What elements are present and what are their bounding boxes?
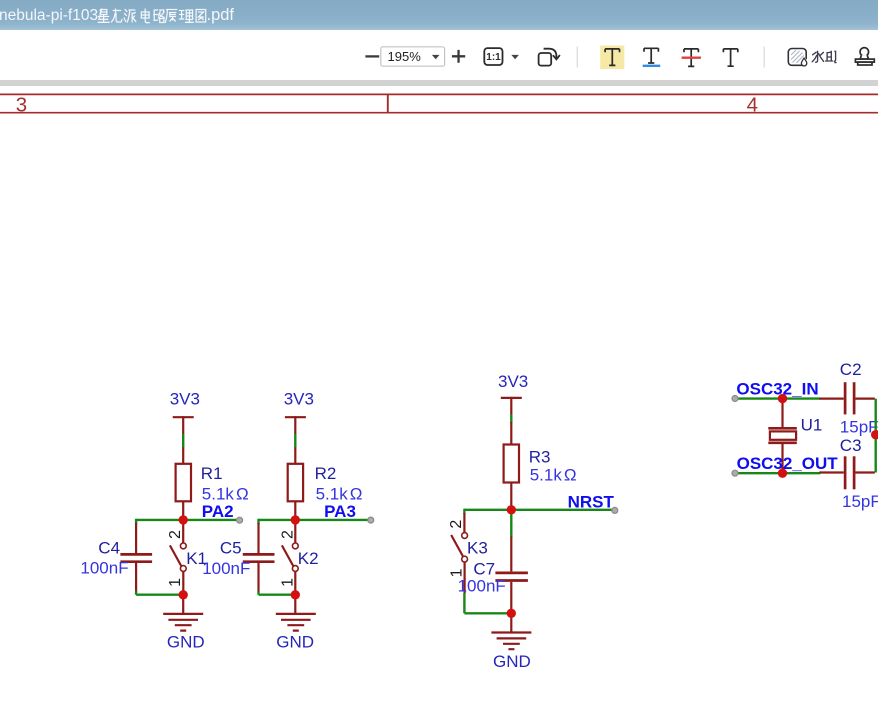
stamp icon [855, 48, 874, 65]
svg-text:GND: GND [276, 632, 314, 651]
wire C4 top corner [135, 519, 137, 524]
junction node K3/C7/GND [507, 609, 516, 618]
svg-text:3V3: 3V3 [284, 390, 314, 409]
svg-text:PA2: PA2 [202, 502, 234, 521]
char 星 [98, 10, 109, 23]
sheet border top line [0, 93, 878, 95]
wire junction to C7 [510, 510, 512, 538]
pin endpoint dot OSC32_OUT [732, 470, 738, 476]
junction node R3/K3/C7/NRST [507, 505, 516, 514]
ground symbol (K1 branch) [163, 595, 203, 631]
strike-T button [682, 49, 701, 67]
svg-text:100nF: 100nF [458, 576, 506, 595]
switch K2 [282, 520, 298, 595]
ground symbol (K2 branch) [276, 595, 316, 631]
zoom dropdown 195% [381, 47, 445, 66]
svg-text:5.1kΩ: 5.1kΩ [316, 484, 363, 503]
junction node K1/C4/GND [179, 590, 188, 599]
svg-text:C5: C5 [220, 538, 242, 557]
svg-text:1: 1 [279, 578, 296, 587]
junction node R2/K2/C5 [291, 515, 300, 524]
capacitor C7 [495, 537, 528, 614]
svg-text:3: 3 [16, 94, 27, 117]
pin endpoint dot NRST [612, 507, 618, 513]
PDF viewer title bar [0, 0, 878, 30]
crystal U1 [768, 399, 797, 474]
char 路 [154, 10, 165, 23]
capacitor C4 [120, 523, 152, 592]
rotate button [539, 49, 560, 66]
svg-text:2: 2 [167, 530, 184, 539]
pin from 3V3 bar [510, 397, 512, 415]
svg-text:5.1kΩ: 5.1kΩ [530, 466, 577, 485]
underline-T button [643, 48, 661, 66]
char 理 [179, 10, 193, 22]
wire node PA3 horizontal [259, 519, 369, 521]
pin endpoint dot PA2 [237, 517, 243, 523]
svg-text:GND: GND [167, 632, 205, 651]
grey separator strip [0, 80, 878, 86]
junction node R1/K1/C4 [179, 515, 188, 524]
svg-text:OSC32_OUT: OSC32_OUT [737, 454, 839, 473]
wire node PA2 horizontal [136, 519, 237, 521]
sheet border column tick [387, 94, 389, 112]
junction node OSC32_IN / U1 / C2 [778, 394, 787, 403]
power bar 3V3 (NRST branch) [501, 397, 522, 399]
svg-text:R1: R1 [201, 464, 223, 483]
toolbar [0, 30, 878, 80]
水印 label [812, 51, 836, 62]
svg-text:3V3: 3V3 [170, 390, 200, 409]
svg-text:2: 2 [448, 520, 465, 529]
resistor R2 [288, 448, 303, 520]
resistor R1 [176, 448, 191, 520]
separator [763, 47, 765, 68]
svg-text:K3: K3 [467, 539, 488, 558]
plain-T button [723, 49, 737, 66]
char 原 [165, 10, 177, 23]
svg-text:5.1kΩ: 5.1kΩ [202, 484, 249, 503]
svg-text:3V3: 3V3 [498, 372, 528, 391]
char 图 [196, 10, 206, 23]
junction node K2/C5/GND [291, 590, 300, 599]
junction node OSC32_OUT / U1 / C3 [778, 469, 787, 478]
separator [576, 47, 578, 68]
wire node OSC32_IN [737, 397, 821, 399]
wire C5 top corner [257, 519, 259, 524]
capacitor C2 [819, 382, 875, 414]
pin endpoint dot OSC32_IN [732, 396, 738, 402]
highlight-T button (active, yellow) [600, 46, 624, 70]
pin from 3V3 bar [294, 416, 296, 434]
svg-text:2: 2 [279, 530, 296, 539]
wire right edge C2-C3 [875, 399, 877, 473]
svg-text:C3: C3 [840, 436, 862, 455]
wire K3 top corner [463, 509, 465, 514]
power bar 3V3 (K2 branch) [285, 416, 306, 418]
capacitor C3 [819, 456, 875, 489]
ground symbol (NRST branch) [491, 613, 531, 649]
svg-text:4: 4 [747, 94, 758, 117]
zoom plus [452, 50, 465, 63]
pin endpoint dot PA3 [368, 517, 374, 523]
capacitor C5 [243, 523, 275, 592]
resistor R3 [504, 422, 519, 510]
wire node NRST horizontal [464, 509, 612, 511]
wire 3V3 to R1 [182, 434, 184, 449]
wire C5 bottom corner [259, 591, 296, 595]
svg-text:C2: C2 [840, 360, 862, 379]
char 派 [124, 10, 136, 23]
svg-text:OSC32_IN: OSC32_IN [736, 380, 818, 399]
switch K1 [170, 520, 186, 595]
wire node OSC32_OUT [737, 472, 821, 474]
svg-text:K2: K2 [298, 549, 319, 568]
1:1 button [484, 48, 519, 65]
wire 3V3 to R3 [510, 415, 512, 424]
svg-text:R3: R3 [529, 448, 551, 467]
char 电 [141, 9, 149, 23]
junction node C2/C3 right [871, 430, 878, 439]
wire C4 bottom corner [136, 591, 183, 595]
svg-text:100nF: 100nF [202, 559, 250, 578]
char 允 [111, 9, 122, 22]
svg-text:U1: U1 [801, 416, 823, 435]
svg-text:15pF: 15pF [842, 492, 878, 511]
power bar 3V3 (K1 branch) [173, 416, 194, 418]
svg-text:PA3: PA3 [324, 502, 356, 521]
svg-text:1: 1 [167, 578, 184, 587]
sheet border inner line [0, 112, 878, 114]
svg-text:GND: GND [493, 652, 531, 671]
wire K3 bottom corner to junction [464, 593, 511, 613]
pin from 3V3 bar [182, 416, 184, 434]
svg-text:C4: C4 [98, 538, 120, 557]
svg-text:R2: R2 [315, 464, 337, 483]
wire 3V3 to R2 [294, 434, 296, 449]
zoom minus [365, 55, 379, 57]
svg-text:100nF: 100nF [80, 559, 128, 578]
watermark icon [788, 49, 808, 66]
switch K3 [451, 513, 467, 594]
